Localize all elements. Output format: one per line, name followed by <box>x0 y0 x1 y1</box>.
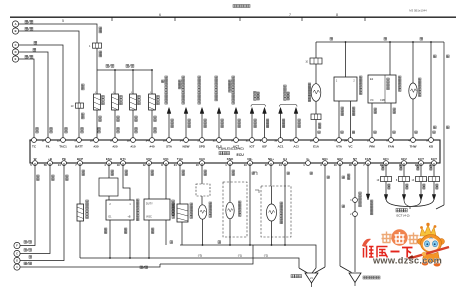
VSV label (fake CJK, vertical) <box>308 83 311 86</box>
svg-text:19: 19 <box>117 163 120 167</box>
wire sensor VTA to ECU <box>338 101 340 140</box>
VISC label (fake CJK, vertical) <box>172 200 175 203</box>
off-page connector arrow wire (bracketed) <box>251 114 253 141</box>
wire ESA pin through relay box to circuit opening relay <box>108 163 110 178</box>
ECU top pin SPD <box>200 138 205 143</box>
svg-text:www.dzsc.com: www.dzsc.com <box>372 256 442 266</box>
off-page connector arrow wire <box>185 114 187 141</box>
ECU top pin TAC1 <box>61 138 66 143</box>
arrow to transmission <box>419 195 423 201</box>
svg-text:TAC1: TAC1 <box>59 145 67 149</box>
injector 2 (solenoid) <box>112 94 119 110</box>
watermark: weiku red brand glyphs <box>364 246 413 258</box>
wire pin D to ECU FIL pin <box>19 52 48 140</box>
wire relay to ECU THW pin <box>412 99 414 140</box>
svg-text:B02: B02 <box>337 157 343 161</box>
transmission brace <box>386 200 434 210</box>
rail color label BLK/RED left <box>106 65 109 68</box>
wire rail to ECU KD pin <box>430 41 432 43</box>
shield drain hooks <box>253 172 257 175</box>
wire ECT connector to arrow <box>433 182 435 196</box>
ECU top pin NSW <box>184 138 189 143</box>
left connector pin C <box>12 42 18 48</box>
wire to ECU pin E1A <box>315 120 317 141</box>
svg-text:#30: #30 <box>93 145 98 149</box>
wire rail to injector 4 <box>151 70 153 94</box>
color labels on left vertical wires <box>37 175 39 177</box>
off-page connector arrow wire <box>168 114 170 141</box>
svg-text:24: 24 <box>180 138 183 142</box>
svg-text:FIL: FIL <box>46 145 51 149</box>
lower left connector pin C <box>14 250 20 256</box>
throttle sensor label (fake CJK, vertical) <box>360 76 363 79</box>
svg-text:THW: THW <box>410 145 417 149</box>
watermark: find-chip text row (orange) <box>382 229 419 245</box>
ECU bottom pin ESA <box>107 161 112 166</box>
svg-text:FAN: FAN <box>365 157 371 161</box>
svg-text:(*1): (*1) <box>238 254 243 258</box>
wire rail to injector 2 <box>114 70 116 94</box>
injector 1 wire color label <box>99 116 101 118</box>
ECU bottom pin BCP <box>78 161 83 166</box>
wire ECT pin 13 down <box>420 163 422 177</box>
wire ECU PE pin to lower pin G <box>20 163 64 261</box>
ECU top pin VC <box>348 138 353 143</box>
wire ECT pin 8 down <box>403 163 405 177</box>
ECU bottom pin B02 <box>338 161 343 166</box>
wire FAN pin to off-page arrow (pressure switch) <box>367 163 369 194</box>
svg-text:10: 10 <box>274 138 277 142</box>
ECU top pin TC <box>32 138 37 143</box>
off-page connector arrow wire (bracketed) <box>295 114 297 141</box>
svg-text:C: C <box>16 252 18 256</box>
svg-text:18: 18 <box>349 163 352 167</box>
knock sensor (oval in shield) <box>229 163 231 202</box>
wire knock sensor to bus L1 <box>229 219 231 245</box>
svg-text:EF1: EF1 <box>383 157 389 161</box>
injector 3 (solenoid) <box>130 94 137 110</box>
arrow to transmission <box>432 195 436 201</box>
svg-text:10: 10 <box>163 138 166 142</box>
svg-text:D: D <box>15 50 17 54</box>
power rail wire top right <box>316 41 444 43</box>
svg-text:10: 10 <box>334 163 337 167</box>
ECU bottom pin EF1 <box>384 161 389 166</box>
svg-text:SPD: SPD <box>199 145 206 149</box>
svg-text:E1(A),E1(C),B4(C): E1(A),E1(C),B4(C) <box>218 147 243 151</box>
ECU top pin #10 <box>131 138 136 143</box>
rail label BLK marks <box>330 38 333 41</box>
wire color labels above right ECU pins <box>318 131 320 133</box>
wire color labels below left bottom pins <box>82 170 84 172</box>
svg-text:24: 24 <box>344 138 347 142</box>
pressure sensor inner label (fake CJK) <box>387 78 389 80</box>
svg-text:E51: E51 <box>163 157 169 161</box>
wire pressure sensor to ECU FAN pin area <box>390 103 392 140</box>
svg-text:THA: THA <box>177 157 184 161</box>
svg-text:6: 6 <box>159 13 161 17</box>
wire ECT pin 19 down <box>385 163 387 177</box>
svg-text:24: 24 <box>174 163 177 167</box>
svg-text:ECT (4-2): ECT (4-2) <box>396 214 409 218</box>
injector 3 wire color label <box>135 116 137 118</box>
svg-text:ECT: ECT <box>418 157 424 161</box>
svg-text:EF2: EF2 <box>401 157 407 161</box>
wire color label <box>298 119 300 121</box>
injector 4 label (fake CJK) <box>157 96 160 99</box>
ECU top pin ACI <box>294 138 299 143</box>
lower pin color labels (fake CJK) <box>24 241 27 244</box>
ECU top pin KD <box>429 138 434 143</box>
EFI main relay coil <box>412 41 414 43</box>
ECU top pin STA <box>167 138 172 143</box>
svg-text:21: 21 <box>246 138 249 142</box>
wire ECT connector to arrow <box>403 182 405 196</box>
lower left connector pin 1 <box>14 264 20 270</box>
wire injector 2 to ECU pin <box>114 110 116 140</box>
manifold pressure sensor U4 <box>389 41 391 43</box>
svg-text:C: C <box>15 43 17 47</box>
wire ECU W pin to lower pin F <box>20 163 35 246</box>
fuse 13F connector <box>76 103 84 108</box>
svg-text:NE-: NE- <box>247 157 252 161</box>
resistor (A/C amplifier feed) <box>79 163 81 204</box>
left connector pin D <box>12 49 18 55</box>
bracket joining pair <box>251 105 266 107</box>
off-page connector arrow wire <box>201 114 203 141</box>
arrow to transmission <box>402 195 406 201</box>
ECU bottom pin E52 <box>147 161 152 166</box>
destination label (fake CJK, vertical) <box>215 76 218 79</box>
wires relay to bus L2 <box>109 220 111 258</box>
ECU top pin #30 <box>94 138 99 143</box>
ECU top pin AC1 <box>278 138 283 143</box>
injector 4 wire color label <box>154 116 156 118</box>
svg-text:ECU: ECU <box>237 153 245 157</box>
ECU bottom pin ECT <box>419 161 424 166</box>
ECU bottom pin E51 <box>164 161 169 166</box>
left connector pin E <box>12 56 18 62</box>
wire color labels above left ECU pins <box>36 128 38 130</box>
svg-text:M3 5B1e1044: M3 5B1e1044 <box>409 9 427 13</box>
ground bus L2 <box>80 258 299 268</box>
injector supply rail wire <box>97 69 152 71</box>
distributor pickup coil (oval) <box>270 163 272 186</box>
wire NT pin with inline connectors <box>354 163 356 198</box>
ECU top pin BATT <box>77 138 82 143</box>
water temp sensor (oval) with connector <box>201 163 203 184</box>
watermark: monkey mascot <box>409 223 450 267</box>
svg-text:12: 12 <box>143 163 146 167</box>
off-page connector arrow wire <box>235 114 237 141</box>
connector box below VSV <box>311 114 321 120</box>
off-page connector arrow wire <box>218 114 220 141</box>
svg-text:DUTY: DUTY <box>146 203 153 206</box>
svg-text:E52: E52 <box>146 157 152 161</box>
wire injector 3 to ECU pin <box>132 110 134 140</box>
svg-text:(*3): (*3) <box>198 254 203 258</box>
svg-text:G-: G- <box>306 157 309 161</box>
svg-text:IGN: IGN <box>199 157 204 161</box>
wire color label WHT (pin D) <box>33 48 36 51</box>
destination label (fake CJK, vertical) <box>198 76 201 79</box>
destination label (fake CJK, vertical) <box>165 76 168 79</box>
lower left connector pin G <box>14 257 20 263</box>
ECU bottom pin NE+ <box>269 161 274 166</box>
injector 3 label (fake CJK) <box>138 96 141 99</box>
ECU top pin FAN <box>389 138 394 143</box>
wire color label <box>238 119 240 121</box>
ECU bottom pin IGN <box>200 161 205 166</box>
svg-text:14: 14 <box>58 163 61 167</box>
ECU top pin E1A <box>314 138 319 143</box>
title: engine control (fake CJK) <box>233 5 236 8</box>
svg-text:VC: VC <box>370 98 374 102</box>
ECU bottom pin B01 <box>323 161 328 166</box>
svg-text:21: 21 <box>213 138 216 142</box>
svg-text:STA: STA <box>166 145 173 149</box>
ECU top pin VTA <box>337 138 342 143</box>
ECU top pin #40 <box>150 138 155 143</box>
ECU bottom pin FAN <box>366 161 371 166</box>
wire rail to injector 1 <box>96 70 98 94</box>
VSV solenoid (coil in oval) <box>311 84 321 102</box>
throttle position sensor U3 <box>345 41 347 43</box>
ECU bottom pin NT <box>353 161 358 166</box>
svg-text:G: G <box>16 259 18 263</box>
shock absorber ground symbol <box>349 273 361 283</box>
wire sensor VC to ECU <box>350 101 352 140</box>
ECU top pin #20 <box>113 138 118 143</box>
ECT wire upper color label <box>382 165 384 167</box>
cylinder head label (fake CJK) <box>291 275 294 278</box>
wire to VSV solenoid <box>315 64 317 84</box>
left connector pin B <box>12 28 18 34</box>
ECU bottom pin EF2 <box>402 161 407 166</box>
svg-text:NT: NT <box>353 157 357 161</box>
svg-text:IGF: IGF <box>262 145 267 149</box>
ECT wire upper color label <box>430 165 432 167</box>
svg-text:13: 13 <box>244 163 247 167</box>
VISC valve U2 (DUTY VISC) <box>148 163 150 199</box>
circuit opening relay U1 <box>106 200 134 220</box>
ECU top pin THW <box>411 138 416 143</box>
ECU bottom pin G1 <box>283 161 288 166</box>
VSV solenoid branch wire <box>315 42 317 58</box>
wire pickup coil to bus L1 <box>271 221 273 245</box>
wire lower pin 1 long bottom wire to bus L3 <box>20 264 160 267</box>
svg-text:AC1: AC1 <box>277 145 283 149</box>
knock sensor shield (dashed) <box>223 182 247 237</box>
svg-text:18: 18 <box>127 138 130 142</box>
water temp sensor label (fake CJK, vertical) <box>209 202 212 205</box>
EFI relay label (fake CJK, vertical) <box>419 78 422 81</box>
ECU bottom pin G- <box>306 161 311 166</box>
wire rail down right edge <box>443 42 445 205</box>
ECT connector box 8 <box>399 177 410 182</box>
svg-text:+B: +B <box>128 216 131 219</box>
wire F12 to injector rail <box>96 48 98 70</box>
off-page connector arrow wire (bracketed) <box>264 114 266 141</box>
injector 1 (solenoid) <box>94 94 101 110</box>
section tick marks on border <box>111 18 113 22</box>
wire color label <box>204 119 206 121</box>
wire color label <box>171 119 173 121</box>
svg-text:ACT: ACT <box>233 145 239 149</box>
svg-text:#20: #20 <box>112 145 117 149</box>
cylinder head ground symbol <box>305 273 318 283</box>
relay label (fake CJK, vertical) <box>137 199 140 202</box>
wire pin E to ECU TC pin <box>19 59 34 140</box>
connector 1Q box <box>310 58 322 64</box>
ECU bottom pin +B <box>48 161 53 166</box>
knock sensor label (fake CJK, vertical) <box>239 201 242 204</box>
svg-text:E1A: E1A <box>313 145 320 149</box>
svg-text:E2: E2 <box>370 77 374 81</box>
injector 4 (solenoid) <box>149 94 156 110</box>
ground bus L1 <box>180 245 316 268</box>
bracket joining pair <box>280 105 298 107</box>
svg-text:KNK: KNK <box>227 157 234 161</box>
wire rail to injector 3 <box>132 70 134 94</box>
left connector pin A <box>12 21 18 27</box>
ECU name label (fake CJK) + ECU <box>219 152 222 155</box>
top border line <box>10 16 456 18</box>
ECU top pin ELS <box>217 138 222 143</box>
ECU top pin PIM <box>370 138 375 143</box>
wire ECU +B pin to lower pin C <box>20 163 50 254</box>
svg-text:NE+: NE+ <box>268 157 274 161</box>
wire color label <box>282 119 284 121</box>
ECT wire upper color label <box>400 165 402 167</box>
svg-text:17: 17 <box>42 138 45 142</box>
svg-text:ESA: ESA <box>106 157 113 161</box>
bus L3 segment <box>160 245 253 264</box>
wire pressure sensor to ECU PIM <box>371 103 373 140</box>
BLK labels on buses <box>170 241 173 244</box>
injector 2 wire color label <box>117 116 119 118</box>
wire ECT connector to arrow <box>420 182 422 196</box>
pickup coil label (fake CJK, vertical) <box>280 202 283 205</box>
svg-text:IGT: IGT <box>250 145 255 149</box>
pressure sensor label (fake CJK, vertical) <box>399 76 402 79</box>
svg-text:BT1: BT1 <box>120 157 126 161</box>
ECU top pin IGF <box>262 138 267 143</box>
svg-text:FAN: FAN <box>388 145 394 149</box>
svg-text:18: 18 <box>90 138 93 142</box>
svg-text:W: W <box>34 157 37 161</box>
transmission label (fake CJK) <box>396 209 399 212</box>
ECU top pin ACT <box>234 138 239 143</box>
wire pin A to fusible link F12 <box>19 24 97 43</box>
injector 1 label (fake CJK) <box>102 96 105 99</box>
svg-text:ECT: ECT <box>431 157 437 161</box>
pressure switch label (fake CJK, vertical) <box>371 200 373 202</box>
watermark: red stamp squiggle <box>362 239 371 247</box>
wire 13F to ECU BATT pin <box>78 108 80 140</box>
svg-text:E: E <box>15 57 17 61</box>
wire pin B to fuse 13F then BATT pin <box>19 31 79 103</box>
vertical color label on F12 wire upper <box>99 27 102 30</box>
wires VISC to bus L2 <box>148 220 150 258</box>
relay upper open box <box>99 178 118 196</box>
wire rail end joining transmission brace <box>436 205 444 209</box>
wire color label <box>221 119 223 121</box>
ECU top pin IGT <box>250 138 255 143</box>
svg-text:8: 8 <box>336 13 338 17</box>
destination label (fake CJK, vertical) <box>232 76 235 79</box>
injector 2 label (fake CJK) <box>120 96 123 99</box>
svg-text:BCP: BCP <box>77 157 83 161</box>
ECU box outline <box>30 140 440 163</box>
intake air temp sensor (hatched) <box>179 163 181 204</box>
ECT connector box 4 <box>429 177 440 182</box>
ECT connector box 13 <box>416 177 427 182</box>
lower left connector pin F <box>14 242 20 248</box>
ECU bottom pin BT1 <box>121 161 126 166</box>
wire color label <box>188 119 190 121</box>
rail color label BLK/RED right <box>126 65 129 68</box>
distributor shield box (dashed) <box>261 186 291 237</box>
svg-text:21: 21 <box>290 138 293 142</box>
svg-text:VTA: VTA <box>336 145 343 149</box>
ECU bottom pin W <box>33 161 38 166</box>
vertical color label on 13F wire <box>82 84 85 87</box>
wire ECT pin 4 down <box>433 163 435 177</box>
wire air temp sensor to bus L1 <box>181 222 183 245</box>
svg-text:#40: #40 <box>149 145 154 149</box>
wire injector 1 to ECU pin <box>96 110 98 140</box>
svg-text:NSW: NSW <box>183 145 190 149</box>
wire BT1 pin to circuit opening relay <box>123 163 130 200</box>
wire color label <box>254 119 256 121</box>
svg-text:B: B <box>15 29 17 33</box>
svg-text:ACI: ACI <box>293 145 298 149</box>
ECU bottom pin ECT <box>432 161 437 166</box>
svg-text:13: 13 <box>57 138 60 142</box>
bracket destination label (fake CJK, vertical) <box>284 85 287 88</box>
wire water temp sensor to bus L1 <box>202 219 204 245</box>
fusible link F12 connector <box>93 43 102 48</box>
svg-text:F2B: F2B <box>380 99 385 102</box>
wire color label BLK/WHT (pin E) <box>25 55 28 58</box>
destination label (fake CJK, vertical) <box>182 76 185 79</box>
svg-text:B01: B01 <box>322 157 328 161</box>
svg-text:18: 18 <box>310 138 313 142</box>
svg-text:BATT: BATT <box>75 145 83 149</box>
svg-text:ELS: ELS <box>216 145 222 149</box>
wire color label BLK/YEL (pin B) <box>25 27 28 30</box>
wire B02 pin to shock absorber ground <box>339 163 341 266</box>
svg-text:G1: G1 <box>283 157 287 161</box>
svg-text:PE: PE <box>62 157 66 161</box>
svg-text:#10: #10 <box>130 145 135 149</box>
air temp sensor labels (fake CJK, vertical) <box>172 203 175 206</box>
shock absorber label (fake CJK) <box>363 276 366 279</box>
ECT connector box 19 <box>381 177 392 182</box>
wire pin C to ECU TAC1 pin <box>19 45 63 140</box>
wire ECT connector to arrow <box>385 182 387 196</box>
wire color label BLK (pin C) <box>34 41 37 44</box>
svg-text:A: A <box>15 22 17 26</box>
wire color label <box>266 119 268 121</box>
svg-text:5: 5 <box>62 19 64 23</box>
wire G1 pin down into distributor <box>284 163 286 245</box>
wire color label BLK/RED (pin A) <box>25 20 28 23</box>
vertical color label on F12 wire lower <box>99 51 102 54</box>
ECU bottom pin KNK <box>228 161 233 166</box>
ECU bottom pin NE- <box>248 161 253 166</box>
